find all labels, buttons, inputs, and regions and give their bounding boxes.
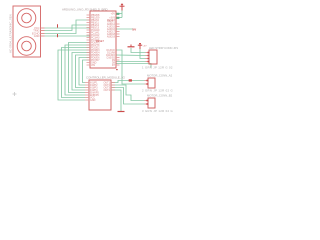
wire bundle k6 [79,58,90,86]
wire 5V to JP1 pin3 [140,49,146,59]
wire open net to label [117,64,152,68]
U1 pin1 mark [116,69,118,70]
svg-text:HC-SR04_ULTRASONIC_SEN: HC-SR04_ULTRASONIC_SEN [8,14,12,53]
svg-text:+5V: +5V [111,12,116,15]
wire bundle k5 [76,55,91,88]
svg-text:MOTOR_CONN_A2: MOTOR_CONN_A2 [147,74,173,78]
svg-text:GND: GND [34,34,40,38]
wire bundle k3 [69,43,91,93]
net label JP2 wire [129,79,132,81]
JP1 pins [146,53,150,62]
transducer bottom inner [22,41,32,51]
wire bundle k7 [83,60,91,83]
wire GND to JP1 pin1 [131,48,146,53]
wire U1 to JP1 pin2 [117,54,146,57]
transducer bottom outer [17,37,36,56]
connector JP1 body [149,50,157,64]
svg-text:1 GRN JP 12R G 02: 1 GRN JP 12R G 02 [142,66,173,70]
U1 right pin stubs [116,24,120,65]
svg-text:MOTOR_CONN_B2: MOTOR_CONN_B2 [147,94,173,98]
JP2 pins [145,81,149,85]
transducer top outer [17,9,36,28]
U1 supply pin pad 3V3 [116,17,119,19]
op-amp U1 main IC body [90,11,116,68]
sensor US1 body [13,6,41,57]
svg-text:RESET: RESET [96,40,105,43]
svg-text:VIN: VIN [91,64,95,67]
wire sensor VCC to U1 [45,27,91,29]
U1 right pin labels [106,12,116,67]
+5V supply symbol P1 [120,4,125,11]
connector JP2 body [148,78,155,88]
svg-text:OUT4: OUT4 [103,89,110,92]
+5V supply symbol P2 [138,43,142,49]
net label dash A [57,24,59,27]
wire bundle k2 [65,45,90,95]
op-amp U2 bottom IC body [89,80,111,110]
wire U1 3V3 stub top [117,17,123,19]
net label dash B [57,34,59,37]
wire bundle k0 [58,50,90,100]
wire U1 5V stub top [117,13,123,15]
U1 left pin stubs [87,15,91,65]
transducer top inner [22,13,32,23]
wire bundle k1 [62,48,91,98]
wire U1 net label 5V [117,28,134,30]
wire U2 to JP3 pin1 [111,85,145,101]
svg-text:ARDUINO_UNO_R3 SHIELD_BRD: ARDUINO_UNO_R3 SHIELD_BRD [62,7,108,11]
wire supply vertical [121,11,123,18]
wire styles [45,11,152,112]
ground symbol GND1 [128,46,135,48]
svg-text:GND: GND [90,99,96,102]
wire U2 to JP2 pin1 [111,81,145,83]
wire U2 to ground [111,90,121,111]
wire U2 to JP3 pin2 [111,88,145,105]
svg-text:LED STRIP CONN JP1: LED STRIP CONN JP1 [149,46,178,50]
wire sensor GND to U1 [45,35,91,37]
ground symbol GND2 [118,111,125,113]
origin cross [13,92,17,96]
U1 supply pin pad 5V [116,13,119,15]
connector JP3 body [148,98,155,108]
wire sensor ECHO up to U1 [45,20,91,34]
wire U1 to JP1 pin4 [117,61,146,63]
wire bundle k4 [72,53,90,91]
sensor pins [41,28,45,36]
svg-text:3 GRN JP 12R 02 G: 3 GRN JP 12R 02 G [142,109,173,113]
svg-text:A5/D19: A5/D19 [107,35,116,38]
U2 right pin labels [103,81,110,92]
JP3 pins [145,101,149,105]
svg-text:+5V: +5V [143,45,147,47]
U1 left pin labels [91,14,100,67]
wire sensor TRIG up to U1 [45,25,91,31]
svg-text:2 GRN JP 12R 02 G: 2 GRN JP 12R 02 G [142,89,173,93]
svg-text:CONTROLLER_MODULE_V2: CONTROLLER_MODULE_V2 [86,76,125,80]
U2 right pin stubs [111,83,115,91]
U2 left pin stubs [85,83,89,101]
sensor pin labels [32,26,40,38]
wire U1 to JP2 pin2 [117,50,145,84]
U2 left pin labels [90,81,99,102]
